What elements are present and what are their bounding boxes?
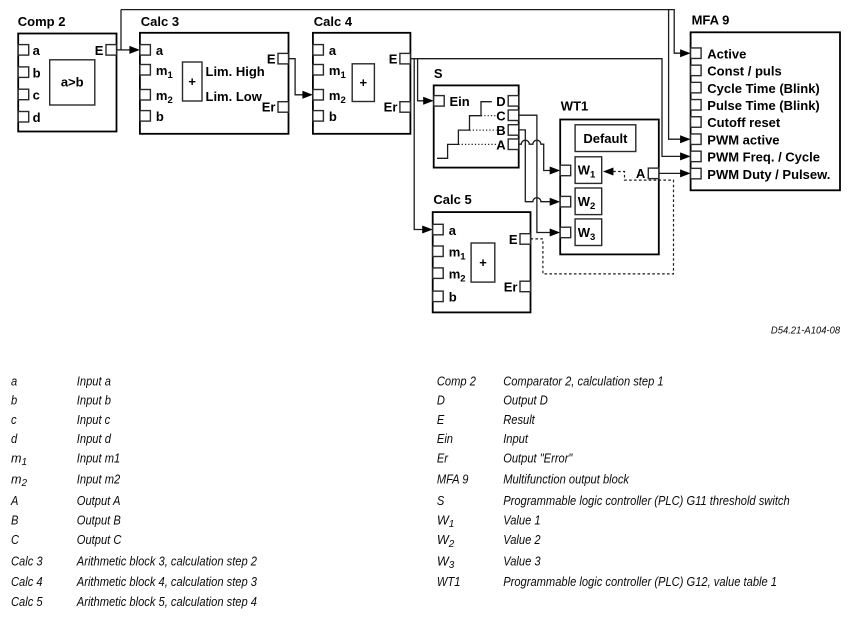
- svg-text:Active: Active: [707, 46, 746, 61]
- svg-text:Lim. High: Lim. High: [206, 64, 265, 79]
- svg-text:b: b: [11, 394, 17, 408]
- LEGEND right column: [437, 374, 790, 589]
- port Cutoff reset: [691, 117, 702, 128]
- svg-text:MFA 9: MFA 9: [437, 472, 469, 486]
- block Calc 3: [140, 14, 289, 134]
- dotted link to B: [470, 129, 497, 131]
- svg-text:Er: Er: [262, 100, 276, 115]
- wire branch top bus to MFA9 PWM active: [669, 10, 681, 140]
- svg-text:A: A: [10, 494, 18, 508]
- svg-text:PWM Freq. / Cycle: PWM Freq. / Cycle: [707, 150, 820, 165]
- svg-text:Programmable logic controller: Programmable logic controller (PLC) G11 …: [503, 494, 790, 508]
- svg-text:Arithmetic block 4, calculatio: Arithmetic block 4, calculation step 3: [76, 575, 257, 589]
- port m2: [433, 268, 444, 279]
- arrow into W1 port: [550, 167, 561, 175]
- port W2: [560, 196, 571, 207]
- svg-text:Lim. Low: Lim. Low: [206, 89, 263, 104]
- svg-text:b: b: [329, 109, 337, 124]
- svg-text:E: E: [509, 232, 518, 247]
- svg-text:Arithmetic block 3, calculatio: Arithmetic block 3, calculation step 2: [76, 555, 257, 569]
- svg-text:+: +: [479, 255, 487, 270]
- svg-text:a>b: a>b: [61, 75, 84, 90]
- svg-text:a: a: [11, 374, 17, 388]
- wire top bus to MFA9 Active: [121, 10, 681, 54]
- port Const/puls: [691, 65, 702, 76]
- svg-text:d: d: [33, 110, 41, 125]
- svg-text:PWM Duty / Pulsew.: PWM Duty / Pulsew.: [707, 167, 830, 182]
- svg-text:A: A: [496, 137, 506, 152]
- svg-text:Arithmetic block 5, calculatio: Arithmetic block 5, calculation step 4: [76, 595, 257, 609]
- S body: [434, 85, 519, 167]
- arrow into Calc3.a: [129, 46, 140, 54]
- wire S.A to WT1.W1 with hops: [519, 140, 551, 170]
- svg-text:Comp 2: Comp 2: [437, 374, 476, 388]
- arrow into Calc5.a: [422, 226, 433, 234]
- port B: [508, 125, 519, 136]
- arrow into MFA9 Active: [680, 49, 691, 57]
- wire S.B to WT1.W2 with hop: [519, 130, 551, 202]
- svg-text:Input m2: Input m2: [77, 472, 120, 486]
- block Calc 4: [313, 14, 411, 134]
- svg-text:c: c: [11, 413, 17, 427]
- port E: [520, 234, 531, 245]
- svg-text:a: a: [449, 223, 457, 238]
- svg-text:a: a: [329, 43, 337, 58]
- svg-text:MFA 9: MFA 9: [692, 12, 730, 27]
- port PWM Freq: [691, 151, 702, 162]
- wire branch to Calc5.a: [414, 59, 424, 230]
- threshold staircase: [437, 102, 492, 159]
- block S: [434, 66, 519, 168]
- port a: [433, 224, 444, 235]
- svg-text:Er: Er: [437, 452, 449, 466]
- block MFA 9: [691, 12, 840, 190]
- svg-text:Pulse Time (Blink): Pulse Time (Blink): [707, 98, 819, 113]
- svg-text:Programmable logic controller: Programmable logic controller (PLC) G12,…: [503, 575, 777, 589]
- svg-text:Value 3: Value 3: [503, 555, 540, 569]
- svg-text:Output B: Output B: [77, 514, 121, 528]
- svg-text:D: D: [437, 394, 445, 408]
- port E: [106, 45, 117, 56]
- svg-text:Input d: Input d: [77, 432, 112, 446]
- port a: [313, 45, 324, 56]
- svg-text:Calc 3: Calc 3: [11, 555, 43, 569]
- dotted link to A: [458, 143, 496, 145]
- svg-text:d: d: [11, 432, 18, 446]
- wire Calc3.E to Calc4.m2: [289, 59, 305, 95]
- svg-text:B: B: [496, 123, 505, 138]
- port Ein: [434, 96, 445, 107]
- svg-text:+: +: [188, 74, 196, 89]
- Default box: [575, 125, 636, 152]
- svg-text:Comp 2: Comp 2: [18, 14, 66, 29]
- svg-text:Output "Error": Output "Error": [503, 452, 573, 466]
- arrow into MFA9 PWM Freq: [680, 152, 691, 160]
- arrow into MFA9 PWM Duty: [680, 169, 691, 177]
- svg-text:Ein: Ein: [437, 432, 453, 446]
- svg-text:Input m1: Input m1: [77, 452, 120, 466]
- port c: [18, 89, 29, 100]
- port A output: [648, 168, 659, 179]
- wire riser junction to top bus: [120, 10, 122, 50]
- Comp 2 body: [18, 34, 116, 132]
- svg-text:E: E: [95, 43, 104, 58]
- svg-text:Input a: Input a: [77, 374, 111, 388]
- svg-text:WT1: WT1: [561, 99, 588, 114]
- svg-text:S: S: [434, 66, 443, 81]
- arrow into W2 port: [550, 198, 561, 206]
- port m2: [140, 90, 151, 101]
- svg-text:Result: Result: [503, 413, 535, 427]
- LEGEND left column: [10, 374, 257, 609]
- svg-text:Output D: Output D: [503, 394, 548, 408]
- svg-text:b: b: [156, 109, 164, 124]
- wire Calc4.E to MFA9 PWM Freq: [410, 59, 681, 157]
- port Active: [691, 48, 702, 59]
- svg-text:Er: Er: [504, 280, 518, 295]
- W3 box: [575, 219, 602, 246]
- port D: [508, 96, 519, 107]
- svg-text:S: S: [437, 494, 445, 508]
- port m1: [433, 246, 444, 257]
- svg-text:Input: Input: [503, 432, 528, 446]
- svg-text:Calc 4: Calc 4: [314, 14, 353, 29]
- svg-text:Output C: Output C: [77, 533, 122, 547]
- port E: [278, 53, 289, 64]
- port W1: [560, 165, 571, 176]
- arrow into S.Ein: [423, 97, 434, 105]
- port m1: [140, 65, 151, 76]
- svg-text:c: c: [33, 88, 40, 103]
- port E: [400, 53, 411, 64]
- port a: [18, 45, 29, 56]
- port PWM active: [691, 134, 702, 145]
- wire Comp2.E to Calc3.a: [117, 49, 132, 51]
- block WT1: [560, 99, 659, 255]
- svg-text:Er: Er: [384, 100, 398, 115]
- svg-text:Input b: Input b: [77, 394, 111, 408]
- W2 box: [575, 188, 602, 215]
- svg-text:Value 1: Value 1: [503, 514, 540, 528]
- svg-text:E: E: [437, 413, 445, 427]
- summing box: [471, 243, 495, 282]
- svg-text:Calc 5: Calc 5: [11, 595, 43, 609]
- svg-text:Calc 3: Calc 3: [141, 14, 179, 29]
- wire WT1.A to MFA9 PWM Duty: [659, 172, 681, 174]
- summing box: [352, 64, 374, 102]
- arrow into W3 port: [550, 229, 561, 237]
- svg-text:Input c: Input c: [77, 413, 111, 427]
- arrow into Calc4.m2: [302, 91, 313, 99]
- MFA 9 body: [691, 32, 840, 190]
- port a: [140, 45, 151, 56]
- dashed wire Calc5.E to WT1.W1: [531, 172, 674, 274]
- svg-text:Default: Default: [583, 131, 628, 146]
- port b: [313, 111, 324, 122]
- svg-text:a: a: [156, 43, 164, 58]
- Calc 4 body: [313, 33, 411, 134]
- svg-text:Ein: Ein: [450, 94, 470, 109]
- block Calc 5: [433, 192, 531, 313]
- svg-text:PWM active: PWM active: [707, 132, 779, 147]
- svg-text:Cutoff reset: Cutoff reset: [707, 115, 781, 130]
- port b: [433, 291, 444, 302]
- svg-text:C: C: [11, 533, 20, 547]
- port Er: [520, 281, 531, 292]
- WT1 body: [560, 120, 659, 255]
- port Pulse Time: [691, 100, 702, 111]
- svg-text:D: D: [496, 94, 505, 109]
- svg-text:Const / puls: Const / puls: [707, 64, 781, 79]
- wire branch to S.Ein: [418, 59, 425, 101]
- port W3: [560, 227, 571, 238]
- svg-text:a: a: [33, 43, 41, 58]
- port C: [508, 110, 519, 121]
- wire S.C to WT1.W3: [519, 115, 551, 232]
- svg-text:Calc 4: Calc 4: [11, 575, 43, 589]
- svg-text:Value 2: Value 2: [503, 533, 540, 547]
- svg-text:Output A: Output A: [77, 494, 121, 508]
- svg-text:E: E: [389, 51, 398, 66]
- svg-text:B: B: [11, 514, 18, 528]
- svg-text:Cycle Time (Blink): Cycle Time (Blink): [707, 81, 819, 96]
- svg-text:D54.21-A104-08: D54.21-A104-08: [771, 326, 841, 337]
- port Cycle Time: [691, 82, 702, 93]
- summing box: [183, 62, 203, 101]
- svg-text:C: C: [496, 108, 506, 123]
- arrow into MFA9 PWM active: [680, 135, 691, 143]
- svg-text:WT1: WT1: [437, 575, 461, 589]
- port Er: [400, 102, 411, 113]
- svg-text:b: b: [449, 290, 457, 305]
- svg-text:Multifunction output block: Multifunction output block: [503, 472, 629, 486]
- W1 box: [575, 157, 602, 184]
- svg-text:+: +: [360, 75, 368, 90]
- dotted link to C: [481, 115, 497, 117]
- comparator a>b box: [50, 60, 95, 105]
- port m1: [313, 65, 324, 76]
- svg-text:b: b: [33, 65, 41, 80]
- port b: [18, 67, 29, 78]
- dashed arrow into W1 box: [603, 168, 614, 176]
- port m2: [313, 90, 324, 101]
- block Comp 2: [18, 14, 117, 131]
- port Er: [278, 102, 289, 113]
- port PWM Duty: [691, 168, 702, 179]
- svg-text:Comparator 2, calculation step: Comparator 2, calculation step 1: [503, 374, 663, 388]
- port b: [140, 111, 151, 122]
- svg-text:Calc 5: Calc 5: [433, 192, 471, 207]
- Calc 3 body: [140, 33, 289, 134]
- port A: [508, 139, 519, 150]
- Calc 5 body: [433, 212, 531, 312]
- svg-text:A: A: [636, 166, 646, 181]
- port d: [18, 112, 29, 123]
- svg-text:E: E: [267, 51, 276, 66]
